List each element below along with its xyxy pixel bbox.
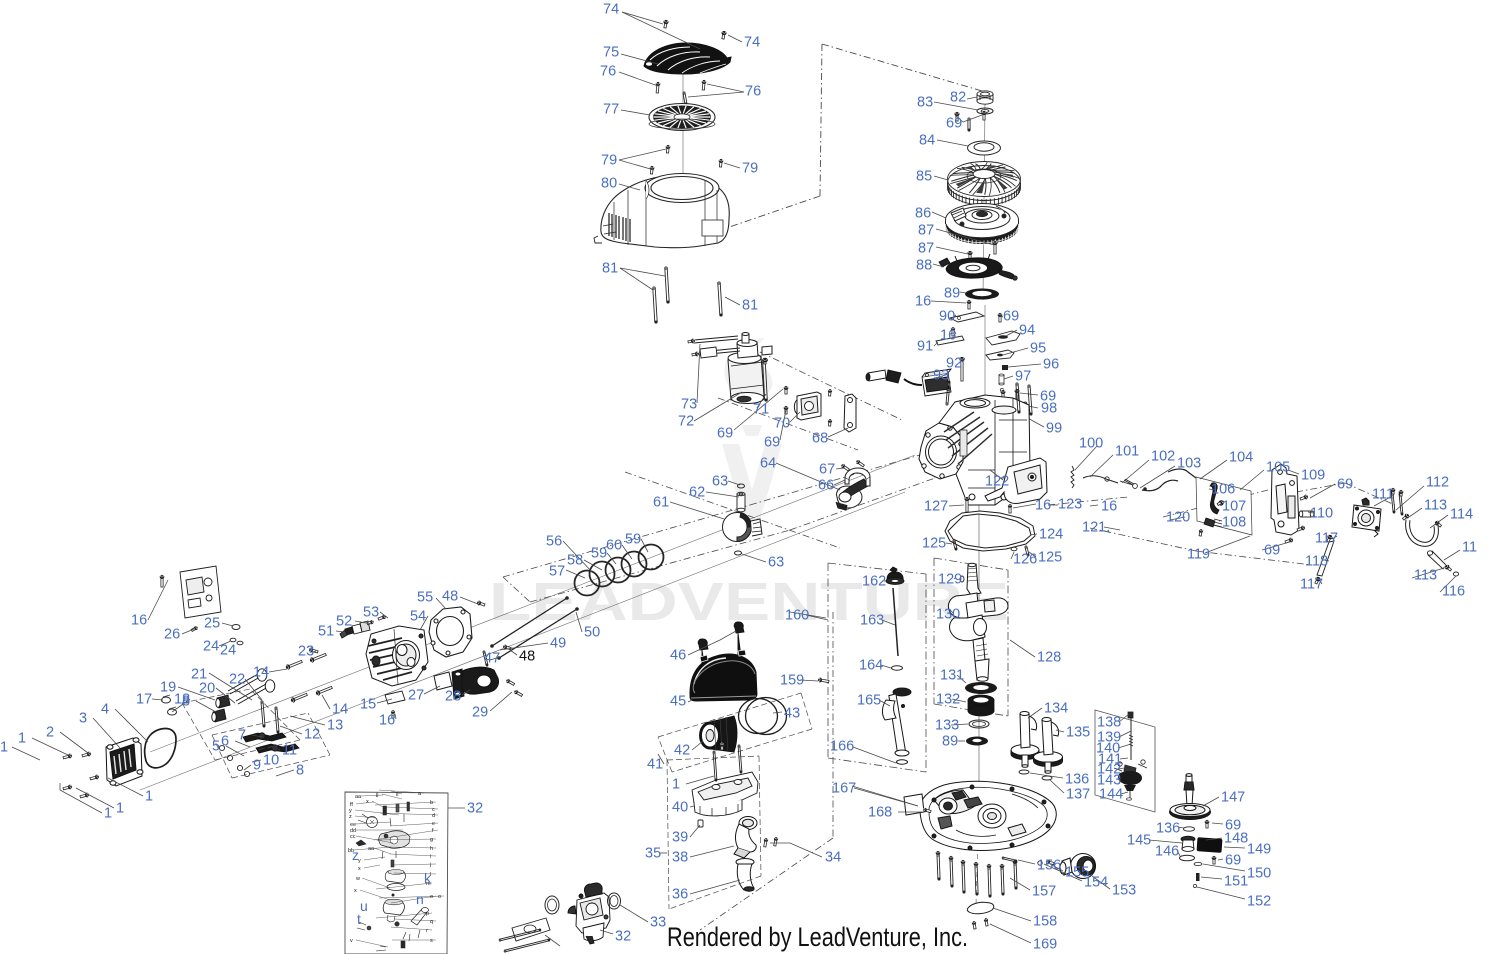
leader 156 [1018,860,1035,864]
svg-text:69: 69 [1225,853,1241,869]
leader 149 [1224,847,1245,848]
svg-text:39: 39 [672,830,688,846]
bolt 1 d [63,784,73,790]
bolt 68 b [828,419,832,426]
svg-text:35: 35 [645,846,661,862]
leader 104 [1200,460,1227,479]
svg-text:10: 10 [263,753,279,769]
bolt 1 a [63,753,73,759]
leader 153 [1092,876,1110,889]
svg-text:88: 88 [916,258,932,274]
grommet 39 [698,820,703,827]
leader 85 [934,176,948,180]
svg-text:135: 135 [1066,725,1090,741]
svg-text:100: 100 [1079,436,1103,452]
leader 3 [93,718,120,748]
svg-text:158: 158 [1033,914,1057,930]
bolt 34 b [773,837,778,847]
svg-text:125: 125 [922,536,946,552]
leader 81 [620,268,653,290]
svg-text:145: 145 [1127,833,1151,849]
svg-text:94: 94 [1019,323,1035,339]
leader 76b [707,84,744,92]
retainer 24 b [237,641,243,645]
bolt starter rod a [688,339,696,344]
svg-text:49: 49 [550,636,566,652]
fuel pipe 118 [1317,541,1334,576]
cover gasket 4 [145,728,176,767]
None [1391,488,1395,494]
starter motor 73 [728,333,772,404]
leader 126 [1011,552,1014,559]
cup washer 84 [968,141,1001,155]
leader 4 [115,709,148,742]
tappets 20 [212,695,230,722]
svg-text:102: 102 [1151,449,1175,465]
bolt 1 c [90,774,100,780]
bolt 53 b [367,620,375,625]
leader 69 bracket [1310,484,1335,498]
leader 43 [773,712,782,713]
leader 167 [854,788,918,806]
governor spool 145 [1181,836,1195,851]
nut 82 [977,91,993,104]
svg-text:79: 79 [742,161,758,177]
fan 85 [948,162,1021,207]
leader 69 low2 [1218,859,1223,860]
dash box 41 [658,693,801,737]
leader 16 [395,714,396,719]
leader 100 [1075,446,1097,470]
leader 117b [1320,581,1322,584]
leader 150 [1203,864,1245,871]
dipstick box left [827,563,829,758]
clip 63 b [735,551,742,555]
leader 94 [1006,330,1017,336]
leader 16b [931,301,966,303]
leader 160 [806,615,828,620]
svg-text:70: 70 [774,416,790,432]
link rod 101 [1083,476,1118,483]
svg-text:96: 96 [1043,357,1059,373]
tiny ring 144 [1127,798,1132,800]
stud on base a [713,751,717,781]
svg-text:114: 114 [1450,507,1473,523]
leader 51 [336,631,344,632]
leader 69 starter [734,389,783,430]
leader 41 [658,754,664,764]
svg-text:56: 56 [546,534,562,550]
bolt 46 b [698,639,708,671]
leader 119 [1205,536,1250,553]
svg-text:67: 67 [819,462,835,478]
ring 116 [1453,572,1458,576]
ring 43 [739,698,787,735]
bolt 71 [763,361,768,401]
dash to 69 fuel pump [1296,483,1345,492]
leader 106 [1209,489,1216,490]
engine block 122 [919,395,1030,505]
leader 32 carb [600,930,613,934]
dash frame 8 upper [212,713,308,735]
leader 91 [934,342,938,346]
leader 112 [1396,486,1424,510]
dipstick box bottom [828,758,926,772]
svg-text:33: 33 [650,915,666,931]
svg-text:b: b [430,800,433,806]
crank box left [933,558,935,704]
svg-text:32: 32 [615,929,631,945]
carb vertical axis [832,612,834,838]
bolt 71 head [762,358,767,365]
svg-text:15: 15 [360,697,376,713]
leader 54 [420,616,428,630]
svg-text:83: 83 [917,95,933,111]
clamp 113 b [1434,520,1442,528]
svg-text:14: 14 [332,702,348,718]
cam follower 135 [1034,718,1063,774]
screw on panel [1198,529,1203,537]
bolt 67 a [840,463,850,471]
bolt 46 a [734,622,744,658]
leader 26 [182,629,194,634]
leader 42 [692,741,703,750]
leader 114 [1430,515,1448,528]
svg-text:16: 16 [1035,498,1051,514]
leader 2 [60,732,88,753]
svg-text:87: 87 [918,241,934,257]
bolt 29 a [505,678,515,686]
leader 48 [460,597,478,604]
svg-text:77: 77 [603,102,619,118]
svg-text:8: 8 [296,763,304,779]
svg-text:125: 125 [1038,550,1062,566]
leader 135 [1056,730,1064,732]
svg-text:32: 32 [467,801,483,817]
svg-text:144: 144 [1099,787,1123,803]
None [1000,864,1004,869]
leader 8a [196,701,216,712]
leader 117a [1332,536,1337,539]
svg-text:jj: jj [375,792,378,798]
svg-text:76: 76 [600,64,616,80]
leader 146 [1177,850,1180,856]
svg-text:118: 118 [1305,554,1328,570]
choke lever 106 [1204,483,1223,527]
svg-text:113: 113 [1414,568,1437,584]
ring 126 [1011,547,1017,551]
bolt 1 air [720,743,724,750]
svg-text:9: 9 [253,758,261,774]
leader 154 [1044,864,1082,881]
air cleaner cover 45 [690,650,757,701]
svg-text:97: 97 [1015,369,1031,385]
plate 27 [434,672,452,690]
leader 116 [1440,576,1456,592]
valves 21 22 [228,669,275,704]
leader 52 [355,621,372,624]
leader 121 [1104,527,1120,530]
leader 12 [280,726,302,734]
svg-text:133: 133 [935,718,959,734]
air cleaner base 40 [692,772,758,816]
None [987,864,991,869]
svg-text:w: w [355,876,360,882]
plate 90 [950,312,984,322]
svg-text:126: 126 [1013,552,1037,568]
svg-text:86: 86 [915,206,931,222]
svg-text:63: 63 [768,555,784,571]
svg-text:Rendered by LeadVenture, Inc.: Rendered by LeadVenture, Inc. [667,922,968,952]
leader 18 [172,699,190,712]
svg-text:151: 151 [1224,874,1248,890]
washer 164 [892,666,903,670]
bolt 69 bracket [1300,494,1309,501]
bolt 79 b [649,166,654,175]
screw 159 [817,678,829,684]
leader 147 [1203,797,1219,806]
nut rocker [237,765,242,770]
pan bolt 157 [937,852,940,880]
bolt 67 b [855,459,865,467]
leader 103 [1140,466,1175,488]
leader 1 air [686,776,714,784]
pan bolt 157 [1001,865,1004,895]
svg-text:127: 127 [924,499,948,515]
leader 89b [958,740,965,742]
bolt 16 head area [391,710,394,718]
leader 105 [1240,470,1264,490]
thrust washer 131 [965,682,997,694]
leader 21 -> area [209,673,252,700]
leader 16 block [1013,504,1036,508]
svg-text:x: x [354,888,357,894]
crank box right [1007,570,1009,716]
bolt 34 a [763,838,768,848]
stud 12 [261,701,265,727]
leader 125b [1029,552,1036,557]
svg-text:26: 26 [164,627,180,643]
leader 69c [1020,393,1038,395]
retainer 18 [168,709,177,715]
dash box 35 [667,756,759,760]
bearing 132 [968,695,994,716]
leader 28 [462,690,470,695]
spark plug 52 [340,621,370,638]
leader 10 [252,760,261,762]
leader 169 [990,924,1031,943]
leader 25 [222,623,233,626]
leader 89 [960,292,966,293]
leader 14b [322,695,330,709]
svg-text:106: 106 [1211,482,1235,498]
leader 152 [1197,887,1245,899]
svg-text:r: r [426,928,428,934]
svg-text:61: 61 [653,495,669,511]
pan bolt 157 [988,865,991,897]
pan bolt 157 [962,861,965,893]
bolt bracket b [1297,525,1306,532]
pin [968,118,970,131]
svg-text:25: 25 [204,616,220,632]
construction dash-dot frame vertical [820,44,822,196]
svg-text:113: 113 [1424,498,1447,514]
svg-text:147: 147 [1221,790,1245,806]
leader 159 [800,680,818,681]
box 138-144 [1095,710,1155,812]
leader 48 black [510,650,517,655]
cam follower 134 [1011,712,1039,768]
dowel 125 a [953,540,957,550]
bolt 48 black [502,644,511,650]
starter bracket rods [694,336,740,358]
pin 76 center [683,92,687,105]
svg-text:29: 29 [472,705,488,721]
leader 16 breather [148,580,168,620]
leader 57 [566,570,585,578]
svg-text:p: p [426,911,429,917]
fuel pump 111 [1352,498,1381,537]
leader 69 gear [1212,823,1223,824]
leader 111 [1374,495,1394,506]
crank box top [934,558,1008,570]
svg-text:51: 51 [318,624,334,640]
oil seal 89 [966,737,988,746]
svg-text:11: 11 [1462,540,1477,556]
stud 99 a [1016,383,1020,413]
leader 9 [244,765,251,770]
svg-text:130: 130 [936,607,960,623]
oring 146 [1180,855,1195,861]
leader 130 [950,610,953,613]
leader 40 [690,806,694,807]
svg-text:55: 55 [417,590,433,606]
bolt 79 c [718,159,723,168]
svg-text:153: 153 [1112,883,1136,899]
svg-text:105: 105 [1266,460,1290,476]
svg-text:42: 42 [674,743,690,759]
bolt 1 b [82,751,92,757]
stator 88 [939,254,1017,280]
svg-text:2: 2 [46,725,54,741]
svg-text:137: 137 [1066,787,1090,803]
washer 103 [1133,484,1138,489]
leader 16 gov [1048,504,1058,506]
svg-text:k: k [424,870,432,886]
leader 120 [1170,517,1185,520]
pan bolt 157 [950,857,953,887]
svg-text:38: 38 [672,850,688,866]
leader 108 [1219,520,1220,522]
svg-text:74: 74 [744,35,760,51]
svg-text:o: o [438,894,441,900]
svg-text:104: 104 [1229,450,1253,466]
leader 129 [954,578,955,579]
dash frame rings bottom [530,530,790,602]
carb stud a [499,929,541,941]
leader 69b starter [780,410,786,440]
svg-text:79: 79 [601,153,617,169]
svg-text:24: 24 [220,643,236,659]
dash line near 123 [1048,497,1128,505]
svg-text:164: 164 [859,658,883,674]
bolt 69 b [998,313,1002,322]
svg-text:64: 64 [760,456,776,472]
hose 114 [1408,520,1437,544]
leader 14a [269,669,287,672]
leader 71 [757,394,766,408]
svg-text:117: 117 [1300,577,1323,593]
svg-text:53: 53 [363,605,379,621]
leader 86 [932,212,946,218]
spacer 110 [1299,511,1314,517]
leader 32 box [448,807,465,809]
svg-text:69: 69 [717,426,733,442]
svg-text:149: 149 [1247,842,1271,858]
bolt 107 [1217,499,1225,506]
clip 63 a [738,484,745,488]
leader 68 [828,428,848,437]
svg-text:z: z [352,847,359,863]
svg-text:1: 1 [18,731,26,747]
leader 70 [790,412,800,422]
svg-text:168: 168 [868,805,892,821]
svg-text:n: n [416,891,424,907]
leader 88 [933,264,944,267]
svg-text:48: 48 [519,649,535,665]
watermark leadventure logo flame [722,338,782,520]
leader 60 [622,545,632,559]
bolt 112 b [1399,493,1403,515]
dash frame rod bottom [790,478,935,530]
svg-text:132: 132 [936,692,960,708]
svg-text:z: z [349,814,352,820]
leader 63b [742,554,766,562]
bolt 48 blue [476,600,485,607]
leader 24 [219,641,231,646]
svg-text:8: 8 [182,694,190,710]
bolt 29 b [513,689,523,697]
svg-text:156: 156 [1037,858,1061,874]
leader 96 [1008,364,1041,367]
construction dash-dot frame top [822,44,982,91]
leader 132 [952,699,966,702]
svg-text:69: 69 [1264,543,1280,559]
svg-text:167: 167 [832,781,856,797]
plate 95 [986,350,1014,360]
svg-text:24: 24 [203,639,219,655]
svg-text:148: 148 [1224,831,1248,847]
leader 148 [1206,838,1222,840]
svg-text:108: 108 [1222,515,1246,531]
head bolt 14 [285,659,303,670]
washer 150 [1194,862,1202,865]
bolt 74 right [721,30,727,39]
svg-text:3: 3 [79,711,87,727]
leader 1b [12,747,40,760]
svg-text:6: 6 [221,734,229,750]
solenoid 70 [794,392,821,420]
svg-text:74: 74 [603,2,619,18]
leader 20 [216,688,235,703]
heat shield plate [512,918,550,941]
bolt 112 a [1391,491,1395,513]
svg-text:117: 117 [1315,531,1338,547]
spring 100 [1071,466,1074,488]
valve cover 3 [106,738,143,786]
svg-text:14: 14 [253,665,269,681]
leader 122 [990,470,1003,480]
